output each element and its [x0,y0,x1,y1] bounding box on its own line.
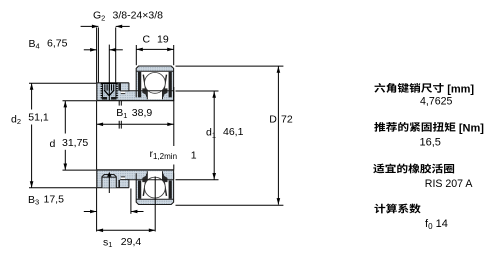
screw point V (upper) [104,90,109,95]
extension line collar face [96,27,98,82]
screw feet (upper) [102,97,107,100]
svg-text:16,5: 16,5 [420,137,441,149]
label: recommended tightening torque [Nm] [374,122,385,132]
svg-text:[mm]: [mm] [447,83,474,95]
eccentric boss (lower) [120,179,129,188]
seal lip right (upper) [163,75,167,97]
seal right (lower) [169,181,172,199]
bore line (upper) [96,100,174,102]
bearing section: inner ring sleeve (upper) [97,91,174,101]
ring cavity (upper) [141,71,168,90]
seal left (upper) [138,72,141,98]
svg-text:D: D [269,113,277,125]
d2 dim line [31,83,33,109]
svg-text:19: 19 [157,33,169,45]
eccentric boss (upper) [120,83,129,92]
screw axis line (upper) [108,45,110,101]
outer ring (upper) with chamfers [136,66,173,97]
ball (lower) [145,177,166,198]
screw axis w/ up arrow (lower) [108,175,110,193]
raceway pocket (upper) [147,84,162,99]
seal lip left (upper) [143,75,147,97]
locking collar (lower) [97,170,120,188]
svg-text:31,75: 31,75 [62,137,88,149]
label: suitable rubber seating ring [373,164,384,174]
seal lip right (lower) [163,174,167,196]
grub screw (upper, sectioned w/ hatch) [101,83,118,99]
svg-text:72: 72 [281,113,293,125]
svg-text:38,9: 38,9 [132,107,153,119]
svg-text:46,1: 46,1 [223,126,244,138]
svg-text:4,7625: 4,7625 [420,95,453,107]
B4 arrows [84,49,97,51]
B1 right extension [173,87,175,146]
ring inner band edge (upper) [136,70,173,72]
shoulder line (upper) [129,90,174,92]
grub screw (lower, outline view) [102,175,116,188]
collar + sleeve outline strokes (lower) [96,170,98,188]
relief notch (upper) [121,92,125,94]
svg-text:3/8-24×3/8: 3/8-24×3/8 [113,10,164,22]
inner ring shoulder hatch right (lower) [162,175,167,182]
ball (upper) [145,73,166,94]
G2 leader left [97,27,99,82]
B3 right leader [130,189,132,214]
svg-text:d: d [50,138,56,150]
inner ring sleeve (lower) [97,170,174,180]
svg-text:6,75: 6,75 [47,38,68,50]
svg-text:1: 1 [191,150,197,162]
svg-text:C: C [143,33,151,45]
bore line (lower) [96,169,174,171]
seal lip left (lower) [143,174,147,196]
label: calculation factor [374,204,385,214]
seal right (upper) [169,72,172,98]
label: hex key size [mm] [374,83,385,93]
C dim [135,45,137,65]
outer ring (lower) [136,173,173,204]
inner ring shoulder hatch left (upper) [142,88,147,95]
D extensions [176,65,284,67]
ring inner band edge (lower) [136,198,173,200]
relief notch (lower) [121,177,125,179]
svg-text:RIS 207 A: RIS 207 A [425,178,474,190]
svg-text:29,4: 29,4 [121,236,142,248]
d2 extensions [29,82,96,84]
G2 leader right [115,27,117,82]
d1 extensions [176,90,219,92]
s1 center-plane leader [154,177,156,232]
ring cavity (lower) [141,180,168,199]
B3 arrows [84,211,97,213]
collar + sleeve outline strokes (upper) [96,83,98,101]
raceway pocket (lower) [147,171,162,186]
inner ring shoulder hatch right (upper) [162,88,167,95]
svg-text:[Nm]: [Nm] [459,122,484,134]
svg-text:17,5: 17,5 [44,194,65,206]
inner ring shoulder hatch left (lower) [142,175,147,182]
seal left (lower) [138,181,141,199]
s1 dim [97,229,156,231]
d extensions [63,100,97,102]
G2 arrows [81,25,99,27]
D dim line [277,66,279,204]
shoulder line (lower) [129,179,174,181]
collar edge extension lines below bore [118,101,120,106]
screw hex socket lines (upper) [104,84,106,90]
locking collar (upper, sectioned) [97,83,120,101]
B1 dim [97,123,174,125]
svg-text:51,1: 51,1 [28,112,49,124]
d dim line [64,101,66,134]
d1 dim line [213,91,215,179]
